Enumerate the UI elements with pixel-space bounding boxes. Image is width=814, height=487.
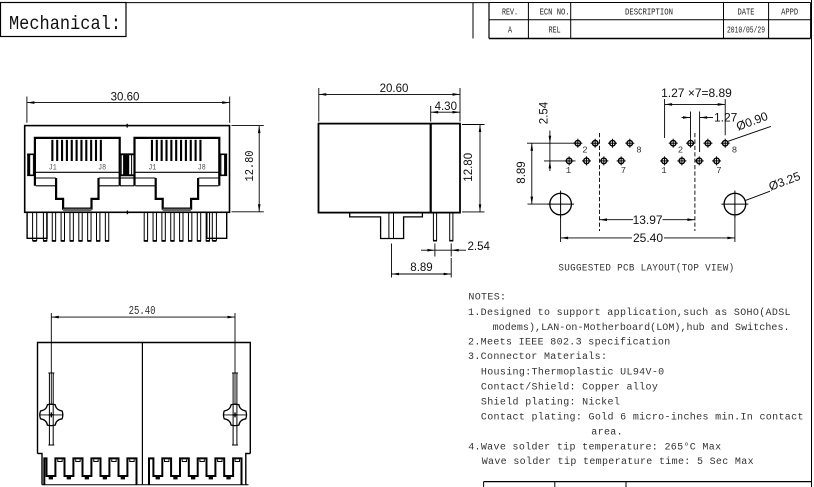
svg-text:1: 1 (661, 166, 666, 176)
svg-text:REL: REL (549, 25, 561, 36)
dim 2.54 side view (421, 241, 490, 257)
side view flange line (430, 124, 432, 213)
svg-text:J1: J1 (49, 163, 57, 173)
pcb caption (558, 262, 734, 274)
leader Ø0.90 (727, 109, 771, 142)
bottom view base line (42, 484, 249, 486)
svg-text:2: 2 (678, 145, 683, 155)
svg-text:1.Designed to support applicat: 1.Designed to support application,such a… (468, 307, 791, 319)
front view port 2 (right RJ45 opening) (135, 138, 220, 212)
svg-text:2.54: 2.54 (468, 241, 491, 253)
pcb mounting hole right (721, 191, 748, 218)
svg-text:Wave solder tip temperature ti: Wave solder tip temperature time: 5 Sec … (482, 456, 754, 468)
svg-text:20.60: 20.60 (380, 83, 409, 95)
svg-text:modems),LAN-on-Motherboard(LOM: modems),LAN-on-Motherboard(LOM),hub and … (493, 322, 790, 334)
svg-text:NOTES:: NOTES: (468, 293, 506, 304)
svg-text:J1: J1 (148, 163, 156, 173)
svg-text:2010/05/29: 2010/05/29 (727, 25, 765, 36)
leader Ø3.25 (745, 169, 803, 201)
svg-text:1: 1 (566, 166, 571, 176)
dim 12.80 front view (232, 126, 264, 212)
svg-text:3.Connector Materials:: 3.Connector Materials: (468, 351, 607, 363)
dim 12.80 side view (462, 125, 485, 212)
svg-text:DESCRIPTION: DESCRIPTION (625, 7, 673, 18)
bottom view comb left (44, 458, 136, 484)
front view body outline (25, 126, 230, 213)
front view contact pins (43, 212, 210, 241)
dim 1.27x7=8.89 (661, 86, 732, 138)
frame line (472, 3, 474, 39)
rev table row A (508, 25, 765, 36)
front view right side tab (219, 154, 227, 176)
sheet right border (811, 0, 813, 487)
front view center marks (126, 124, 128, 214)
svg-text:13.97: 13.97 (633, 213, 663, 227)
svg-text:30.60: 30.60 (111, 91, 140, 103)
bottom view cross post left (39, 373, 63, 445)
sheet top border (126, 2, 489, 4)
dim 8.89 side view (392, 244, 452, 278)
svg-text:A: A (508, 25, 512, 36)
svg-text:4.30: 4.30 (435, 101, 457, 113)
svg-text:ECN NO.: ECN NO. (540, 7, 570, 18)
svg-text:25.40: 25.40 (129, 305, 156, 319)
svg-text:J8: J8 (198, 163, 206, 173)
pcb mounting hole left (547, 191, 574, 218)
side view body outline (319, 124, 461, 213)
dim 25.40 pcb (561, 216, 735, 245)
svg-text:DATE: DATE (738, 7, 755, 18)
svg-text:8: 8 (732, 145, 737, 155)
svg-text:8.89: 8.89 (410, 262, 432, 274)
svg-text:2.54: 2.54 (538, 101, 550, 124)
front view middle tab (120, 154, 135, 186)
svg-text:7: 7 (716, 166, 721, 176)
svg-text:APPD: APPD (781, 7, 798, 18)
svg-text:Shield plating: Nickel: Shield plating: Nickel (481, 397, 620, 409)
dim 1.27 (682, 111, 738, 153)
svg-text:Contact/Shield: Copper alloy: Contact/Shield: Copper alloy (481, 381, 658, 393)
svg-text:8.89: 8.89 (516, 161, 528, 183)
rev table header text (502, 7, 798, 18)
pcb pad labels group 1 (566, 145, 642, 176)
dim 13.97 (600, 213, 695, 227)
side view pin 2 (449, 213, 453, 241)
dim 4.30 (431, 101, 460, 122)
pcb pad group 2 (660, 139, 730, 166)
pcb pad group 1 (565, 139, 635, 166)
dim 25.40 bottom view (51, 305, 235, 405)
front view left side tab (27, 154, 35, 176)
svg-text:4.Wave solder tip temperature:: 4.Wave solder tip temperature: 265°C Max (468, 442, 721, 454)
svg-text:J8: J8 (98, 163, 106, 173)
dim 2.54 pcb (527, 101, 580, 171)
dim 8.89 pcb (516, 143, 551, 204)
title box Mechanical: (1, 3, 127, 37)
bottom table fragment (484, 482, 812, 487)
side view pin 1 (433, 213, 437, 241)
svg-text:12.80: 12.80 (244, 150, 257, 181)
svg-text:SUGGESTED PCB LAYOUT(TOP VIEW): SUGGESTED PCB LAYOUT(TOP VIEW) (558, 262, 734, 274)
svg-text:25.40: 25.40 (633, 231, 663, 245)
notes text block (468, 293, 804, 468)
svg-text:Housing:Thermoplastic UL94V-0: Housing:Thermoplastic UL94V-0 (481, 366, 665, 378)
pcb pad labels group 2 (661, 145, 737, 176)
svg-text:1.27 ×7=8.89: 1.27 ×7=8.89 (661, 86, 732, 100)
pcb center dashed line 1 (599, 133, 601, 231)
dim 30.60 (27, 91, 230, 122)
bottom view comb right (149, 458, 242, 484)
svg-text:Contact plating: Gold 6 micro-: Contact plating: Gold 6 micro-inches min… (481, 412, 804, 424)
bottom view body outline (38, 343, 251, 485)
front view port 1 (left RJ45 opening) (35, 138, 120, 212)
svg-text:2: 2 (582, 145, 587, 155)
side view bottom tab (350, 213, 423, 239)
svg-text:Mechanical:: Mechanical: (9, 13, 121, 35)
svg-text:REV.: REV. (502, 7, 518, 18)
svg-text:8: 8 (636, 145, 641, 155)
dim 20.60 (319, 83, 460, 122)
bottom view center divider (141, 343, 143, 485)
front view right shield leg (207, 212, 227, 241)
bottom view cross post right (223, 373, 247, 445)
front view left shield leg (27, 212, 47, 241)
svg-text:area.: area. (591, 428, 623, 439)
pcb center dashed line 2 (694, 133, 696, 231)
svg-text:7: 7 (621, 166, 626, 176)
rev table grid (489, 3, 811, 39)
svg-text:12.80: 12.80 (463, 153, 475, 182)
svg-text:2.Meets IEEE 802.3 specificati: 2.Meets IEEE 802.3 specification (468, 337, 671, 349)
